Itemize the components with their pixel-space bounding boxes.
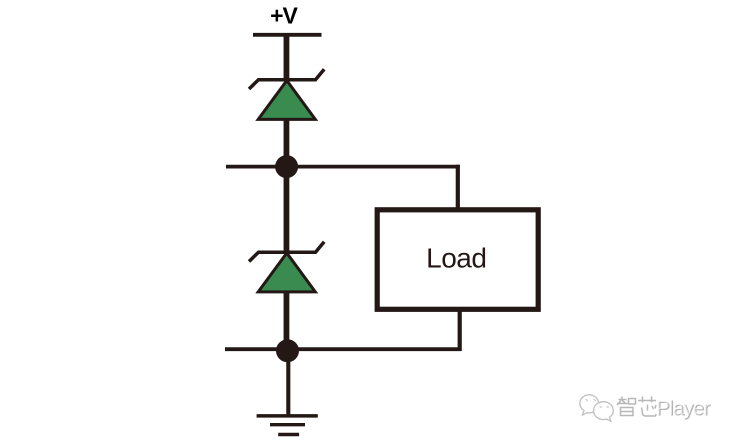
glyph 智 [617,397,628,406]
zener diode D1 [249,69,324,119]
svg-text:Load: Load [426,242,486,273]
wire: node A horizontal (left stub to load branch) [226,165,460,169]
node A junction dot [275,155,298,178]
watermark logo (chat bubbles) [580,395,613,422]
zener diode D2 [249,242,324,292]
glyph 芯 [638,397,656,403]
wire: D1 anode to node A [284,118,290,167]
node B junction dot [276,339,299,362]
wire: +V rail to D1 cathode [284,33,290,80]
wire: node B horizontal (left stub to load return) [225,347,462,351]
+V supply rail [253,33,322,37]
svg-text:+V: +V [270,3,298,29]
watermark text 智芯Player [617,397,711,421]
wire: node A to D2 cathode [284,166,290,253]
wire: load bottom down to node B wire [458,311,462,351]
wire: D2 anode to node B [284,291,290,352]
wire: node B to ground [286,351,290,416]
load box [377,210,538,309]
ground [257,416,318,435]
svg-text:Player: Player [656,397,710,420]
wire: down from top wire to load top [456,165,460,210]
